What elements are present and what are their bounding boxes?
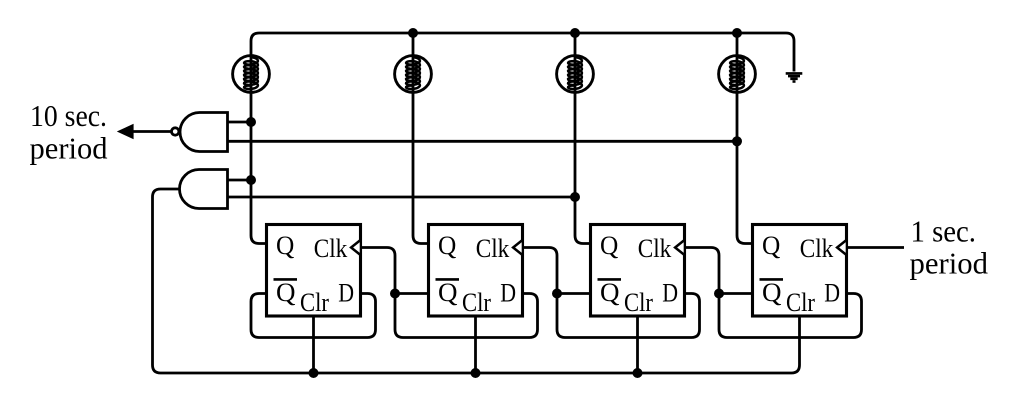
node: FF1 Q / NAND top input: [246, 117, 256, 127]
svg-text:1 sec.: 1 sec.: [911, 214, 977, 249]
node: rail / lamp L4: [732, 28, 742, 38]
lamp L2: [395, 56, 432, 93]
wire: NAND U1 top input stub from FF1 Q line: [228, 121, 252, 124]
node: rail / lamp L3: [570, 28, 580, 38]
svg-text:D: D: [824, 278, 840, 307]
svg-text:period: period: [910, 246, 989, 281]
wire: AND U2 bottom input from FF3 Q line: [228, 196, 576, 199]
wire: lamp L4 vertical drop from rail to FF4 Q: [737, 33, 753, 244]
svg-text:Clk: Clk: [476, 234, 510, 263]
wire: 1 sec. period input to FF4 Clk: [847, 246, 905, 249]
ground: [786, 73, 803, 81]
lamp L3: [557, 56, 594, 93]
svg-text:Q: Q: [276, 278, 296, 307]
wire: +V top rail from lamp L1 drop (FF1 Q) across to ground drop: [251, 33, 794, 244]
node: FF4 Q / NAND bottom input: [732, 136, 742, 146]
wire: AND U2 top input stub from FF1 Q line: [228, 179, 252, 182]
svg-text:Q: Q: [762, 231, 781, 260]
label: 10 sec. period: [30, 98, 108, 166]
svg-text:10 sec.: 10 sec.: [30, 98, 107, 133]
wire: FF2 Clr down to Clr bus: [474, 316, 477, 373]
svg-text:Q: Q: [438, 278, 458, 307]
FF2 Clk edge-trigger chevron: [513, 241, 522, 255]
svg-text:Clk: Clk: [314, 234, 348, 263]
wire: NAND U1 bottom input from FF4 Q line: [228, 140, 738, 143]
label: 1 sec. period: [910, 214, 989, 281]
svg-text:Clr: Clr: [300, 288, 329, 317]
wire: node to FF2 Qbar: [395, 292, 429, 295]
node: Clr bus / FF3 Clr: [633, 368, 643, 378]
svg-text:D: D: [662, 278, 678, 307]
FF3 Clk edge-trigger chevron: [675, 241, 684, 255]
arrowhead: 10 sec. period output: [117, 124, 134, 139]
wire: FF3 Clk down to node, wrap under FF4 to FF4 D: [685, 248, 862, 338]
node: FF4 Qbar-D / FF3 Clk: [714, 289, 724, 299]
node: FF2 Qbar-D / FF1 Clk: [390, 289, 400, 299]
wire: node to FF3 Qbar: [557, 292, 591, 295]
svg-text:Clr: Clr: [624, 288, 653, 317]
wire: FF1 Clk down to node, wrap under FF2 to FF2 D: [361, 248, 538, 338]
FF4 Clk edge-trigger chevron: [837, 241, 846, 255]
D flip-flop FF4: [753, 225, 847, 317]
svg-text:D: D: [338, 278, 354, 307]
node: Clr bus / FF1 Clr: [309, 368, 319, 378]
svg-text:D: D: [500, 278, 516, 307]
D flip-flop FF1: [267, 225, 361, 317]
D flip-flop FF2: [429, 225, 523, 317]
svg-text:Q: Q: [600, 231, 619, 260]
svg-text:Q: Q: [276, 231, 295, 260]
wire: NAND U1 output to arrow: [133, 130, 171, 133]
wire: FF1 Qbar wrap-around to FF1 D: [251, 294, 376, 338]
wire: FF1 Clr down to Clr bus: [312, 316, 315, 373]
FF1 Clk edge-trigger chevron: [351, 241, 360, 255]
svg-text:Clk: Clk: [638, 234, 672, 263]
node: FF1 Q / AND top input: [246, 175, 256, 185]
lamp L4: [719, 56, 756, 93]
AND gate U2 body: [180, 170, 228, 209]
svg-text:Clr: Clr: [786, 288, 815, 317]
NAND gate U1 body: [180, 113, 228, 152]
svg-text:Q: Q: [600, 278, 620, 307]
node: Clr bus / FF2 Clr: [471, 368, 481, 378]
wire: lamp L3 vertical drop from rail to FF3 Q: [575, 33, 591, 244]
wire: node to FF4 Qbar: [719, 292, 753, 295]
node: rail / lamp L2: [408, 28, 418, 38]
svg-text:Clr: Clr: [462, 288, 491, 317]
node: FF3 Qbar-D / FF2 Clk: [552, 289, 562, 299]
NAND U1 output bubble: [172, 128, 179, 135]
svg-text:Q: Q: [762, 278, 782, 307]
lamp L1: [233, 56, 270, 93]
D flip-flop FF3: [591, 225, 685, 317]
svg-text:Q: Q: [438, 231, 457, 260]
svg-text:period: period: [30, 131, 108, 166]
node: FF3 Q / AND bottom input: [570, 192, 580, 202]
wire: FF2 Clk down to node, wrap under FF3 to FF3 D: [523, 248, 700, 338]
svg-text:Clk: Clk: [800, 234, 834, 263]
wire: FF3 Clr down to Clr bus: [636, 316, 639, 373]
wire: lamp L2 vertical drop from rail to FF2 Q: [413, 33, 429, 244]
wire: AND U2 output down left side then Clr bus along bottom up to FF4 Clr: [153, 189, 800, 373]
